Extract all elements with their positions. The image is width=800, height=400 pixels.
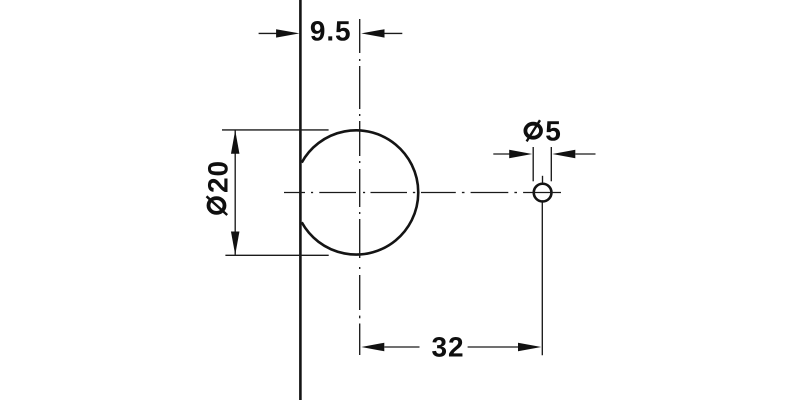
- dim Ø20 top arrowhead: [231, 130, 240, 153]
- dim Ø5 right extension line: [550, 147, 552, 181]
- dim 9.5 right tail: [385, 32, 403, 34]
- small-circle top tick: [542, 176, 544, 183]
- svg-text:20: 20: [202, 160, 233, 193]
- label Ø20: diameter symbol ring: [209, 198, 225, 213]
- dim 9.5 right arrowhead: [361, 29, 384, 37]
- dim 32 left arrowhead: [361, 343, 384, 352]
- dim 32 line right piece: [468, 346, 518, 348]
- extension line below small circle: [541, 203, 543, 356]
- svg-text:9.5: 9.5: [310, 16, 352, 47]
- dim Ø5 right arrowhead: [552, 150, 575, 159]
- dim Ø5 left extension line: [532, 147, 534, 181]
- label Ø5: diameter symbol slash: [527, 120, 540, 141]
- dim 9.5 left arrowhead: [276, 29, 299, 37]
- svg-text:32: 32: [432, 331, 465, 362]
- hole C1 (Ø20 cup hole, clipped at panel edge): [302, 130, 419, 254]
- dim 32 right arrowhead: [518, 343, 541, 352]
- dim Ø5 left tail: [493, 153, 510, 155]
- dim 32 line left piece: [384, 346, 419, 348]
- label Ø20: diameter symbol slash: [207, 196, 228, 215]
- svg-text:5: 5: [545, 115, 561, 146]
- hole C2 (Ø5 pilot hole): [534, 184, 552, 202]
- dim Ø5 left arrowhead: [509, 150, 532, 159]
- dim Ø20 top extension line: [222, 129, 329, 131]
- dim Ø20 dimension line: [234, 130, 236, 255]
- dim Ø20 bottom arrowhead: [231, 232, 240, 255]
- dim 9.5 left tail: [259, 32, 278, 34]
- dim Ø5 right tail: [575, 153, 595, 155]
- dim Ø20 bottom extension line: [225, 254, 328, 256]
- horizontal centerline: [284, 192, 561, 194]
- vertical centerline: [359, 19, 361, 355]
- label Ø5: diameter symbol ring: [525, 124, 541, 138]
- panel edge line: [299, 0, 302, 400]
